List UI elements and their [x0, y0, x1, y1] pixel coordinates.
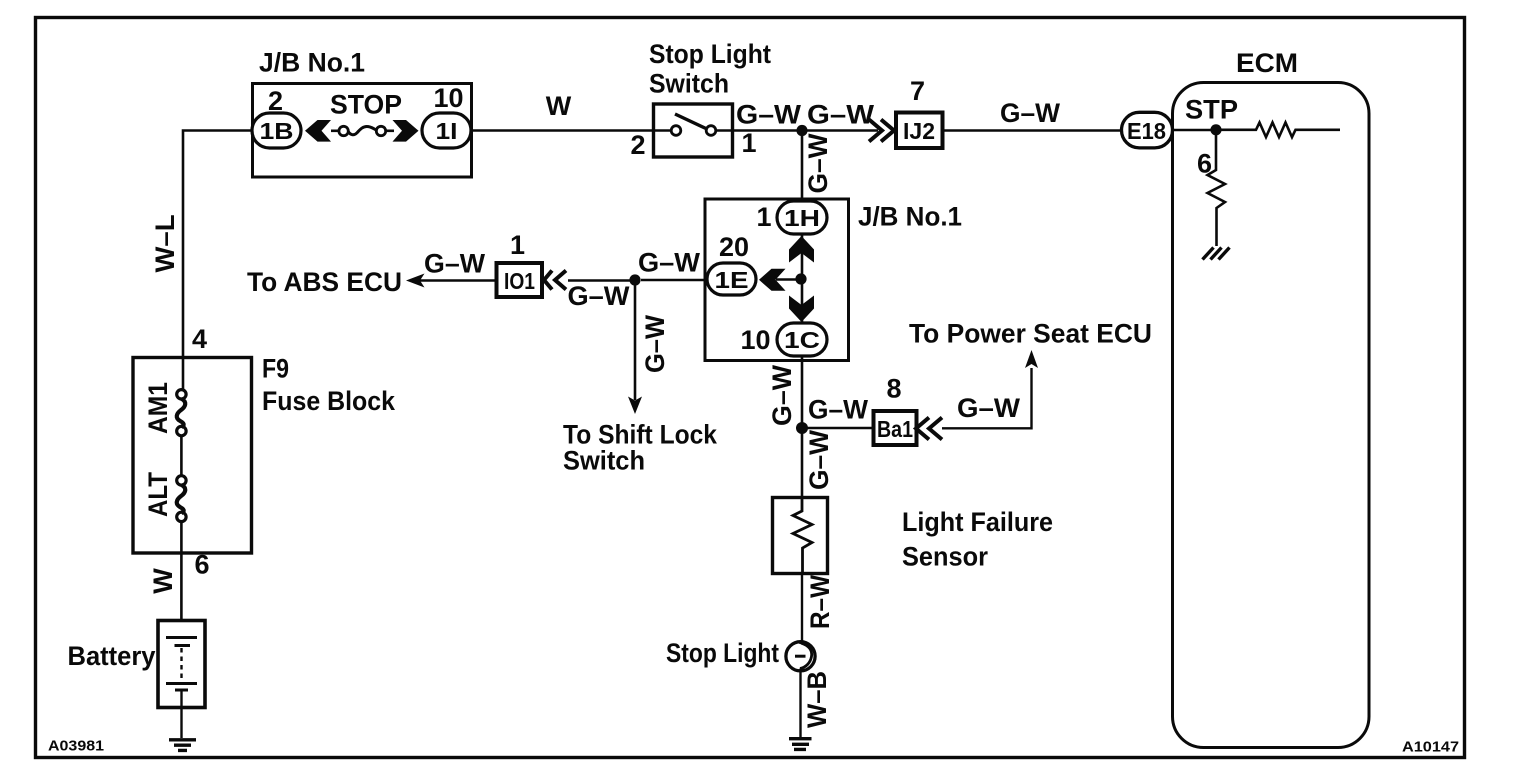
svg-text:To ABS ECU: To ABS ECU — [247, 267, 402, 297]
internal bus wire — [776, 234, 802, 323]
svg-text:G–W: G–W — [640, 315, 670, 373]
junction node (switch output) — [796, 125, 807, 136]
arrow to ABS ECU — [406, 274, 425, 288]
chassis ground (ECM) — [1203, 248, 1230, 260]
svg-text:R–W: R–W — [805, 575, 835, 629]
stop light switch — [649, 39, 771, 157]
svg-text:Stop Light: Stop Light — [649, 39, 771, 69]
svg-text:1H: 1H — [784, 205, 820, 231]
wire to Ba1 — [802, 427, 872, 429]
svg-text:W: W — [546, 91, 572, 121]
svg-text:E18: E18 — [1127, 118, 1166, 144]
svg-text:IJ2: IJ2 — [903, 118, 935, 144]
fuse STOP — [305, 90, 419, 142]
resistor (ECM, vertical) pin 6 — [1197, 130, 1225, 246]
connector IO1 pin 1 — [497, 230, 567, 297]
svg-text:AM1: AM1 — [143, 382, 173, 434]
wire G–W from switch node down to J/B No.1 — [801, 131, 804, 200]
svg-text:8: 8 — [886, 374, 901, 404]
svg-text:G–W: G–W — [957, 393, 1021, 423]
wire G–W to ABS ECU — [420, 279, 496, 281]
fuse block F9 — [133, 354, 396, 554]
svg-text:J/B No.1: J/B No.1 — [259, 48, 365, 78]
junction node (bus) — [795, 273, 806, 284]
svg-text:1E: 1E — [715, 267, 749, 293]
junction node (Ba1 branch) — [796, 422, 808, 434]
junction block J/B No.1 (middle) — [705, 199, 962, 361]
ground (stop light) — [789, 739, 812, 750]
svg-text:Switch: Switch — [649, 69, 729, 99]
battery — [68, 621, 206, 739]
svg-text:G–W: G–W — [803, 133, 833, 193]
wire G–W from IJ2 to E18 — [943, 129, 1123, 131]
connector Ba1 pin 8 — [874, 374, 943, 446]
wire G–W from 1C down to light failure sensor — [801, 357, 804, 498]
connector IJ2 pin 7 — [869, 76, 943, 148]
svg-text:1C: 1C — [784, 327, 820, 353]
svg-text:1B: 1B — [260, 118, 294, 144]
junction node (ABS branch) — [629, 274, 640, 285]
wire to IO1 — [568, 279, 635, 281]
svg-text:A03981: A03981 — [48, 738, 104, 755]
arrow to shift lock switch — [628, 397, 642, 415]
svg-text:G–W: G–W — [568, 281, 631, 311]
svg-text:IO1: IO1 — [504, 268, 535, 294]
fuse ALT — [143, 436, 186, 522]
svg-text:1I: 1I — [436, 118, 458, 144]
wire G–W from 1E to IO1 branch — [641, 279, 705, 281]
svg-text:1: 1 — [756, 202, 771, 232]
connector 1I pin 10 — [422, 83, 471, 148]
svg-text:4: 4 — [192, 324, 207, 354]
svg-text:STP: STP — [1185, 95, 1238, 125]
connector 1H pin 1 — [756, 201, 827, 234]
svg-text:W–B: W–B — [802, 671, 832, 728]
svg-text:G–W: G–W — [736, 100, 802, 130]
arrow up to 1H — [789, 236, 814, 263]
junction block J/B No.1 (top) — [253, 48, 472, 178]
arrow left to 1E — [759, 269, 786, 291]
svg-text:A10147: A10147 — [1402, 739, 1459, 756]
svg-text:W: W — [148, 568, 178, 594]
stop light bulb — [666, 638, 815, 671]
wire G–W from switch to IJ2 — [733, 129, 879, 131]
wire from fuse block to junction block J/B No.1 (W–L) — [183, 131, 252, 358]
wire W from fuse block to battery — [180, 522, 183, 621]
svg-text:G–W: G–W — [804, 430, 834, 490]
svg-text:W–L: W–L — [150, 215, 180, 273]
svg-text:10: 10 — [433, 83, 463, 113]
svg-text:J/B No.1: J/B No.1 — [858, 202, 962, 232]
svg-text:2: 2 — [630, 130, 645, 160]
svg-text:Light Failure: Light Failure — [902, 507, 1053, 537]
light failure sensor — [773, 498, 1054, 574]
svg-text:ECM: ECM — [1236, 48, 1298, 78]
wire STP inside ECM — [1172, 129, 1216, 131]
ground (battery) — [169, 740, 196, 751]
svg-text:G–W: G–W — [424, 249, 485, 279]
svg-text:G–W: G–W — [767, 365, 797, 426]
connector 1E pin 20 — [707, 232, 756, 295]
connector 1C pin 10 — [740, 323, 827, 356]
svg-text:ALT: ALT — [143, 472, 173, 517]
svg-text:1: 1 — [510, 230, 525, 260]
svg-text:G–W: G–W — [808, 395, 868, 425]
wire R–W to stop light — [801, 573, 803, 642]
connector E18 — [1122, 112, 1173, 148]
svg-text:G–W: G–W — [807, 100, 875, 130]
svg-text:G–W: G–W — [1000, 98, 1060, 128]
svg-text:1: 1 — [741, 128, 756, 158]
node STP — [1210, 124, 1221, 135]
arrow down to 1C — [789, 296, 814, 323]
svg-text:To Power Seat ECU: To Power Seat ECU — [909, 319, 1152, 349]
wire W–B to ground — [799, 671, 801, 738]
wire G–W from power seat ECU — [942, 368, 1032, 428]
svg-text:Stop Light: Stop Light — [666, 638, 779, 668]
svg-text:10: 10 — [740, 325, 770, 355]
svg-text:G–W: G–W — [638, 248, 701, 278]
svg-text:Sensor: Sensor — [902, 542, 988, 572]
svg-text:F9: F9 — [262, 354, 289, 384]
svg-text:Ba1: Ba1 — [877, 416, 913, 442]
connector 1B pin 2 — [252, 86, 301, 148]
svg-text:6: 6 — [194, 550, 209, 580]
resistor (ECM pull-up, horizontal) — [1216, 123, 1340, 138]
wire G–W down to shift lock switch — [634, 280, 637, 400]
resistor (light failure sensor) — [793, 497, 812, 573]
svg-text:Battery: Battery — [68, 641, 156, 671]
ECM module box — [1173, 48, 1370, 748]
svg-text:20: 20 — [719, 232, 749, 262]
fuse AM1 — [143, 357, 186, 436]
arrow to power seat ECU — [1025, 350, 1038, 368]
svg-text:Fuse Block: Fuse Block — [262, 386, 396, 416]
wire W from 1I to stop light switch — [471, 129, 653, 131]
svg-text:Switch: Switch — [563, 446, 645, 476]
svg-text:7: 7 — [910, 76, 925, 106]
svg-text:STOP: STOP — [330, 90, 402, 120]
